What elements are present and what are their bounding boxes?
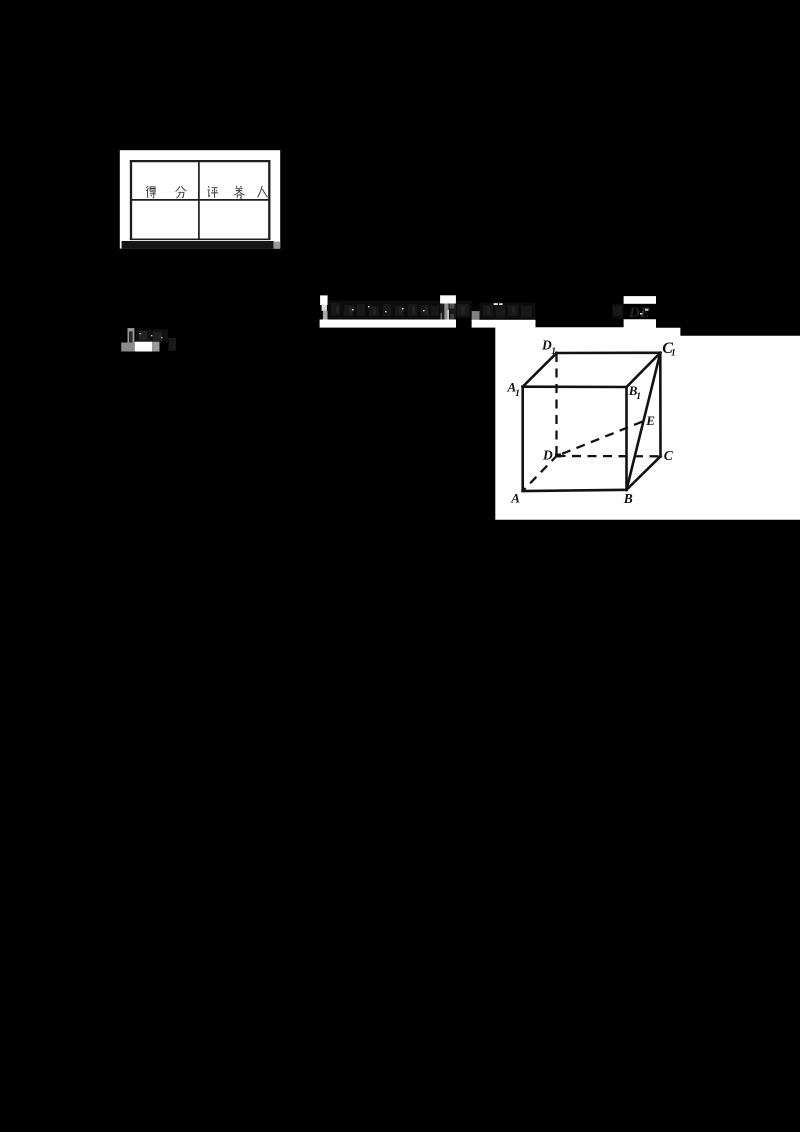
score table white box [120,150,280,248]
line2 gray rect [152,342,160,352]
glyph 分 [176,186,187,198]
edge B-C [627,456,661,490]
line1 faint text block [328,301,441,320]
line2 gray bracket bar [128,328,135,342]
svg-text:D: D [542,448,553,463]
edge B-B1 [625,387,628,490]
edge A-A1 [521,387,524,491]
edge D-D1 [555,353,557,456]
svg-text:B: B [623,491,633,506]
glyph 评 [208,186,219,198]
svg-text:DE: DE [628,305,650,321]
line2 faint text [136,330,168,342]
svg-text:1: 1 [515,389,520,399]
glyph 得 [146,186,156,198]
line2 gray square [121,343,135,352]
cube hidden edges dashed: D-D1, D-A, D-C, D-E [523,353,661,491]
line1 white formula box top [440,295,456,303]
edge D-A [523,456,557,491]
edge B1-C1 [627,353,661,387]
line1 gray square [472,311,480,321]
svg-text:E: E [645,413,655,428]
edge D-C [557,455,661,458]
svg-text:C: C [664,448,674,463]
svg-text:1: 1 [551,347,556,357]
edge A1-D1 [523,353,557,387]
vertex labels [507,337,676,506]
DE white block top [624,296,656,304]
edge C1-C [659,353,662,457]
cube edges solid: A-B, A-A1, B-B1, A1-B1, A1-D1, B1-C1, D1-C1, C1-C, B-C, B-C1 [523,353,661,491]
edge A-B [523,490,627,491]
formula box lower mottle [440,304,444,320]
node D dot [555,454,561,458]
svg-text:1: 1 [636,392,641,402]
score table bottom dark bar [122,241,274,249]
svg-text:A: A [510,491,520,506]
text underline strip [320,320,456,328]
faint glyph speckles [331,303,622,317]
glyph 卷 [234,186,245,199]
cube white patch [495,319,800,520]
line2 white rect [135,342,152,352]
diagonal D-E [557,421,644,456]
svg-text:1: 1 [671,349,676,359]
score table bottom gray corner [274,242,281,249]
edge D1-C1 [557,351,661,354]
line2 bracket glyph [129,331,133,342]
glyph 人 [258,186,268,198]
edge A1-B1 [523,385,627,388]
table border lines [130,160,271,240]
diagonal B-C1 [627,353,661,490]
line1 white bracket bar [320,295,328,305]
